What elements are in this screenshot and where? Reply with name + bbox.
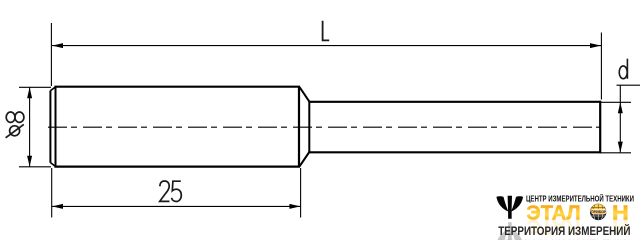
dimension phi8 extension top (19, 86, 51, 88)
dimension 25 line (52, 205, 300, 207)
body left end face (49, 91, 51, 163)
dimension phi8 arrow down (27, 156, 32, 167)
label d bowl (619, 66, 627, 79)
label L (323, 21, 330, 41)
logo badge PRIBOR (591, 209, 607, 214)
dimension phi8 arrow up (27, 87, 32, 98)
rod top edge (309, 101, 601, 103)
svg-text:ПРИБОР: ПРИБОР (591, 210, 607, 214)
logo fork symbol (496, 196, 523, 219)
label phi8 : digit 8 bottom lobe (15, 112, 24, 122)
dimension 25 arrow left (52, 204, 63, 209)
dimension d extension bottom (rod bottom edge extended) (601, 152, 631, 154)
dimension phi8 line (29, 87, 31, 167)
dimension d shelf (617, 84, 640, 86)
logo fork reflection (496, 222, 523, 240)
body cylinder bottom edge (54, 166, 300, 168)
dimension d arrow down (618, 142, 623, 153)
dimension d arrow up (618, 102, 623, 113)
logo line 3 reflection (498, 237, 630, 240)
label phi8 : phi slash (6, 124, 24, 137)
dimension phi8 extension bottom (19, 166, 51, 168)
body left top chamfer (50, 87, 55, 91)
rod end face (599, 101, 601, 154)
logo ETALON reflection (526, 215, 628, 238)
body left bottom chamfer (50, 163, 55, 167)
dimension 25 extension left (51, 168, 53, 218)
label d stem (626, 59, 628, 79)
dimension d line (619, 85, 621, 152)
dimension L extension line right (600, 33, 602, 100)
shoulder cone top (300, 87, 310, 102)
logo globe (590, 204, 606, 220)
dimension d extension top (rod top edge extended) (601, 101, 631, 103)
dimension 25 extension right (300, 168, 302, 218)
svg-text:ТЕРРИТОРИЯ ИЗМЕРЕНИЙ: ТЕРРИТОРИЯ ИЗМЕРЕНИЙ (498, 237, 630, 240)
svg-text:ТЕРРИТОРИЯ ИЗМЕРЕНИЙ: ТЕРРИТОРИЯ ИЗМЕРЕНИЙ (498, 223, 630, 238)
dimension 25 arrow right (289, 204, 300, 209)
label phi8 : phi circle (10, 126, 20, 136)
label 25 : digit 2 (160, 181, 170, 201)
label 25 : digit 5 (172, 181, 182, 201)
dimension L arrow left (52, 43, 63, 48)
dimension L line (52, 45, 601, 47)
body left chamfer line (55, 87, 57, 167)
body right end face (298, 87, 300, 167)
label phi8 : digit 8 top lobe (6, 112, 15, 122)
dimension L arrow right (590, 43, 601, 48)
body cylinder top edge (54, 86, 300, 88)
center line (48, 126, 601, 128)
rod bottom edge (309, 151, 601, 153)
shoulder cone bottom (300, 152, 310, 166)
shoulder junction line (308, 101, 310, 152)
dimension L extension line left (50, 23, 52, 86)
